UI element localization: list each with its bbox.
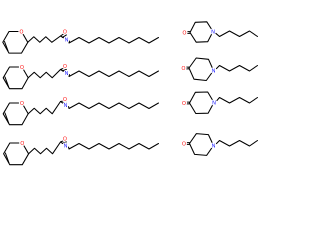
amide C=O and C-N bonds L2 — [61, 68, 65, 70]
alkyl chain L3 — [69, 103, 159, 109]
atom O R3 — [181, 100, 187, 106]
ring double bond L4 — [5, 153, 8, 163]
atom N amide L2 — [63, 70, 69, 76]
alkyl chain L4 — [69, 144, 159, 150]
molecule R4 ring — [190, 134, 214, 156]
molecule R2 ring — [189, 58, 214, 81]
amide C=O and C-N bonds L1 — [61, 33, 65, 36]
linker chain L2 — [28, 70, 60, 78]
alkyl chain R4 — [216, 141, 257, 147]
atom O ring L3 — [19, 100, 25, 106]
ring double bond L1 — [5, 42, 9, 52]
alkyl chain R3 — [217, 98, 258, 104]
atom N R4 — [210, 142, 216, 148]
molecule L4 ring — [4, 143, 29, 165]
molecule R1 ring — [190, 22, 213, 42]
C=O bond R2 — [182, 66, 189, 68]
C=O bond R4 — [183, 142, 190, 144]
svg-text:N: N — [65, 38, 69, 44]
atom O ring L4 — [19, 140, 25, 146]
svg-text:O: O — [63, 30, 67, 36]
svg-text:N: N — [211, 30, 215, 36]
svg-text:O: O — [182, 66, 186, 72]
linker chain L4 — [29, 142, 61, 154]
molecule L2 ring — [3, 67, 28, 89]
C=O bond R3 — [183, 101, 190, 103]
svg-text:O: O — [63, 64, 67, 70]
svg-text:N: N — [64, 103, 68, 109]
atom O amide L1 — [62, 28, 68, 34]
atom N R1 — [210, 28, 216, 34]
atom O R1 — [181, 29, 187, 35]
C=O bond R1 — [183, 31, 190, 33]
svg-text:N: N — [64, 144, 68, 150]
svg-text:N: N — [212, 101, 216, 107]
svg-text:N: N — [212, 144, 216, 150]
atom O R2 — [180, 65, 186, 71]
molecule L1 ring — [3, 32, 28, 54]
atom N R3 — [211, 99, 217, 105]
atom N amide L1 — [63, 36, 69, 42]
molecule L3 ring — [3, 103, 28, 125]
svg-text:O: O — [182, 101, 186, 107]
amide C=O and C-N bonds L4 — [61, 140, 65, 142]
atom N amide L4 — [62, 142, 68, 148]
atom O amide L3 — [62, 96, 68, 102]
atom N amide L3 — [62, 102, 68, 108]
svg-text:O: O — [182, 142, 186, 148]
svg-text:O: O — [183, 31, 187, 37]
svg-text:O: O — [20, 101, 24, 107]
atom O ring L1 — [18, 28, 24, 34]
svg-text:O: O — [20, 141, 24, 147]
atom O ring L2 — [19, 64, 25, 70]
alkyl chain L2 — [69, 71, 159, 77]
svg-text:O: O — [20, 65, 24, 71]
molecule R3 ring — [190, 92, 215, 114]
svg-text:O: O — [63, 137, 67, 143]
amide C=O and C-N bonds L3 — [61, 100, 65, 103]
ring double bond L2 — [5, 77, 9, 87]
atom O amide L2 — [62, 63, 68, 69]
svg-text:N: N — [212, 69, 216, 75]
atom N R2 — [210, 67, 216, 73]
linker chain L1 — [28, 36, 61, 42]
svg-text:N: N — [65, 71, 69, 77]
alkyl chain R2 — [216, 66, 257, 72]
alkyl chain R1 — [216, 31, 258, 37]
atom O amide L4 — [62, 135, 68, 141]
atom O R4 — [181, 140, 187, 146]
svg-text:O: O — [20, 30, 24, 36]
ring double bond L3 — [5, 113, 9, 123]
linker chain L3 — [28, 102, 60, 114]
alkyl chain L1 — [69, 38, 159, 44]
